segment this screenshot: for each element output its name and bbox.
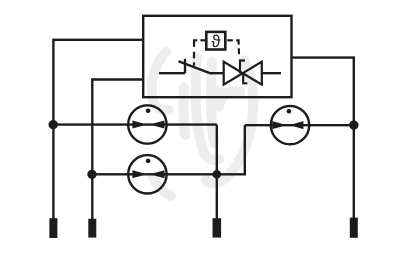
wire: second supply from riser 2 to box left edge: [92, 78, 144, 80]
wire: horizontal through lower-left gauge circle to riser up: [92, 173, 245, 175]
valve Y1: actuator stem lower hook: [243, 73, 247, 84]
dashed link: sensor to switch blade: [194, 40, 206, 65]
junction dot B (riser 2 / lower gauge line): [87, 170, 96, 179]
theta glyph: [211, 35, 220, 47]
wire: riser 2 vertical to terminal 2: [91, 78, 93, 219]
S1 contact post: [184, 59, 186, 73]
valve Y1: actuator stem upper hook: [240, 61, 245, 74]
junction dot A (left riser / upper gauge line): [49, 120, 58, 129]
watermark (faint distributor logo): [152, 52, 254, 196]
V3 right arrowhead: [289, 121, 303, 129]
wire: left riser (terminal 1 vertical): [52, 39, 54, 219]
wire: riser from lower line up to right gauge line: [244, 125, 246, 175]
device outline box: [143, 16, 291, 97]
temperature sensor box (theta): [206, 32, 225, 50]
valve Y1: right lead: [262, 72, 281, 74]
V2 index dot: [146, 159, 151, 164]
thermal switch S1: left lead: [159, 72, 185, 74]
V3 left arrowhead: [272, 121, 287, 129]
wire: drop from upper gauge line to center junction: [216, 125, 218, 175]
V2 right arrowhead: [150, 170, 165, 178]
S1 output lead to valve: [210, 72, 224, 74]
wire: top-left supply from terminal 1 riser to box left edge: [53, 39, 144, 41]
wire: right riser vertical to terminal 4: [353, 56, 355, 218]
wire: center junction down to terminal 3: [216, 174, 218, 219]
gauge circle V2 (lower left): [128, 155, 166, 193]
junction dot C (center 4-way): [212, 170, 221, 179]
valve Y1: right triangle: [243, 62, 262, 85]
terminal pin 1: [49, 218, 57, 238]
terminal pin 4: [350, 218, 358, 238]
V1 right arrowhead: [150, 121, 165, 129]
wire: horizontal through upper-left gauge circle: [53, 123, 216, 125]
gauge circle V1 (upper left): [128, 105, 166, 143]
V3 index dot: [287, 109, 292, 114]
V1 index dot: [146, 109, 151, 114]
wire: box right edge to right riser: [291, 56, 354, 58]
terminal pin 3: [213, 218, 222, 237]
S1 blade: [179, 61, 210, 73]
gauge circle V3 (right): [271, 106, 309, 144]
wire: horizontal through right gauge circle: [245, 124, 354, 126]
dashed link: sensor to valve stem: [227, 40, 239, 54]
V2 left arrowhead: [132, 170, 147, 178]
terminal pin 2: [88, 219, 96, 238]
V1 left arrowhead: [132, 121, 147, 129]
junction dot D (right riser / right gauge line): [349, 120, 358, 129]
valve Y1: left triangle: [224, 62, 243, 85]
